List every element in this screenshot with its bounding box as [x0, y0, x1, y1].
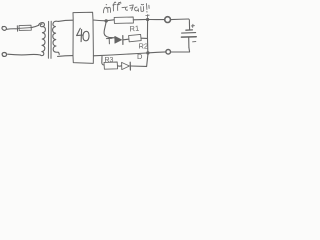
transformer T1 primary winding [41, 26, 46, 55]
wire from bottom input to primary [8, 53, 41, 56]
handwritten note: 7a [130, 5, 134, 11]
svg-text:R1: R1 [129, 24, 139, 34]
wire R2 to right rail [141, 37, 147, 39]
wire node A down to transistor branch [104, 22, 115, 37]
battery + label [191, 24, 194, 27]
handwritten note: word 1 [103, 7, 106, 13]
wire HL2 to node C [149, 51, 166, 54]
right rail wire node B down to node C [146, 21, 148, 51]
svg-text:D: D [137, 52, 143, 61]
wire node A to resistor R1 [108, 19, 114, 22]
bottom-right rail from node C down [147, 54, 148, 66]
battery stem down [188, 37, 190, 47]
wire R1 to node B [133, 18, 147, 20]
node C junction dot [146, 51, 149, 54]
transformer core [47, 21, 49, 58]
node A junction dot [105, 19, 108, 22]
battery GB1 plate long [182, 32, 196, 35]
lamp HL1 (circle on top wire) [165, 17, 171, 23]
transistor label T [106, 38, 112, 44]
lamp HL2 (circle on bottom wire) [166, 50, 171, 55]
resistor R3 [104, 62, 118, 69]
rectifier bridge U1 box [73, 12, 93, 63]
svg-text:R2: R2 [139, 42, 149, 51]
wire rectifier top output to node A [93, 19, 106, 22]
label 40 inside rectifier (hand-drawn digits) [77, 28, 89, 41]
wire battery bottom corner to lamp HL2 [171, 47, 190, 52]
resistor R1 [114, 17, 133, 23]
handwritten note: tall strokes [113, 2, 115, 11]
wire secondary bottom to rectifier [58, 55, 73, 58]
handwritten note: dash c [122, 6, 125, 9]
wire branch from bottom rail down to R3 [102, 56, 104, 65]
wire corner down to battery [189, 19, 190, 30]
diode VD2 (open triangle into bar) [122, 62, 130, 69]
wire from fuse to transformer primary [32, 25, 39, 27]
resistor R2 [129, 34, 142, 41]
wire HL1 to battery corner [171, 18, 189, 21]
wire VD1 to R2 [123, 38, 128, 41]
terminal X1 (top input) [2, 26, 7, 30]
fuse FU1 [16, 26, 18, 31]
wire node B to lamp HL1 [149, 19, 164, 21]
transformer T1 primary winding top loop [38, 23, 44, 27]
battery GB1 plate short (top) [186, 29, 193, 31]
wire VD2 to bottom-right rail [131, 65, 147, 67]
tick above node B [146, 15, 149, 18]
node B junction dot [146, 18, 149, 21]
battery minus tick [193, 41, 196, 43]
transformer T1 secondary winding [53, 21, 60, 54]
terminal X2 (bottom input) [2, 53, 6, 57]
wire from X1 to fuse [7, 28, 17, 31]
battery GB1 plate long 2 [181, 36, 196, 38]
handwritten note: last letters [141, 7, 144, 12]
wire R3 to diode VD2 [118, 65, 122, 67]
wire secondary top to rectifier [58, 20, 73, 21]
diode VD1 (filled arrow into bar) [115, 36, 122, 43]
wire rectifier bottom output to node C [93, 53, 146, 56]
svg-text:R3: R3 [105, 57, 114, 64]
